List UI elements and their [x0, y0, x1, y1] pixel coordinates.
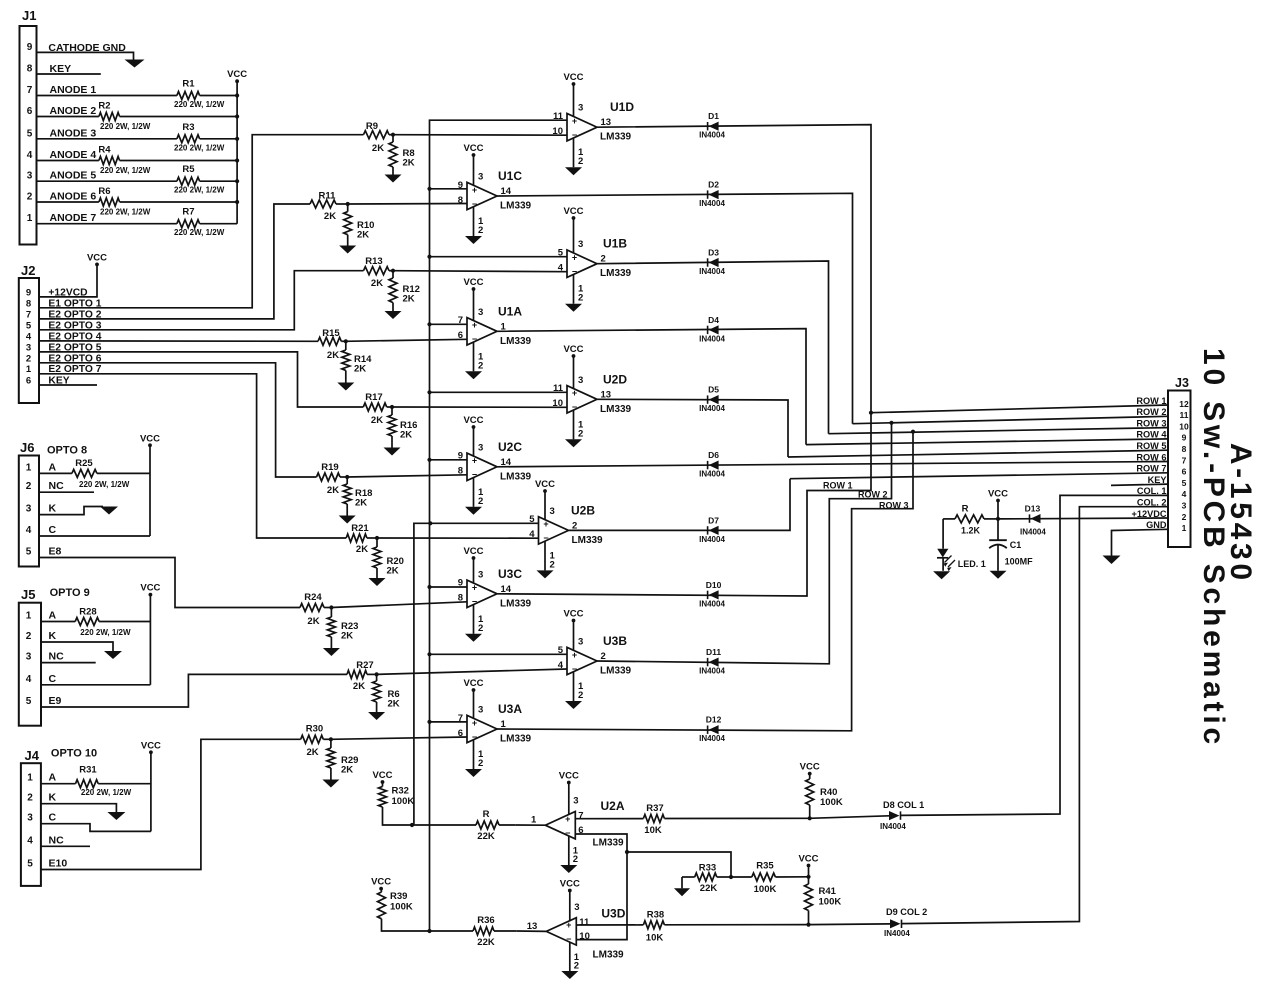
- wire J6 pin 4 C to VCC rail: [39, 535, 150, 537]
- junction node bus/U1C pin 9: [427, 187, 431, 191]
- ground pin 12 of U2A: [568, 836, 570, 865]
- svg-text:1: 1: [27, 213, 33, 224]
- svg-text:J5: J5: [21, 587, 35, 602]
- diode D10 IN4004: [707, 591, 709, 599]
- wire E1 OPTO 1 from J2 to resistor R9: [39, 135, 364, 308]
- svg-text:1: 1: [26, 462, 32, 473]
- VCC power pin 3 of U2C: [473, 427, 475, 456]
- svg-text:3: 3: [573, 796, 578, 807]
- svg-text:J1: J1: [22, 8, 36, 23]
- svg-text:9: 9: [27, 42, 33, 53]
- svg-text:4: 4: [529, 529, 535, 540]
- wire U3C output D10 up to ROW 1: [497, 413, 871, 596]
- wire ROW 7 to J3 pin 6: [790, 473, 1168, 479]
- svg-text:ROW 2: ROW 2: [1136, 407, 1166, 417]
- svg-text:2K: 2K: [354, 364, 366, 375]
- ground below R16: [384, 448, 401, 456]
- svg-text:LM339: LM339: [600, 132, 632, 143]
- resistor R11 2K: [310, 200, 336, 208]
- wire J5 pin 2 K to ground: [41, 642, 113, 651]
- VCC power pin 3 of U3D: [569, 891, 571, 921]
- svg-text:ROW 2: ROW 2: [858, 490, 888, 500]
- ground pin 12 of U3A: [473, 740, 475, 769]
- svg-text:1: 1: [1182, 523, 1187, 533]
- svg-text:IN4004: IN4004: [699, 734, 725, 743]
- svg-text:4: 4: [26, 331, 32, 342]
- wire U2D output to ROW 5 corner: [597, 399, 788, 457]
- svg-text:R: R: [483, 809, 490, 820]
- VCC power pin 3 of U1A: [473, 289, 475, 321]
- resistor R33 22K: [717, 876, 731, 878]
- svg-text:U1A: U1A: [498, 304, 522, 318]
- svg-text:2: 2: [574, 960, 579, 971]
- resistor R37 10K: [643, 815, 664, 823]
- svg-text:+: +: [566, 920, 571, 930]
- svg-text:2K: 2K: [327, 485, 339, 496]
- VCC power pin 3 of U3C: [473, 558, 475, 583]
- svg-text:R1: R1: [182, 79, 195, 90]
- svg-text:D2: D2: [708, 180, 719, 190]
- svg-text:LM339: LM339: [600, 666, 632, 677]
- wire J4 pin 1 A to resistor R31: [41, 783, 76, 785]
- svg-text:U3A: U3A: [498, 702, 522, 716]
- svg-text:ANODE 5: ANODE 5: [50, 170, 97, 182]
- svg-text:D8 COL 1: D8 COL 1: [883, 800, 924, 810]
- svg-text:LM339: LM339: [600, 268, 632, 279]
- svg-text:220 2W, 1/2W: 220 2W, 1/2W: [174, 143, 225, 152]
- svg-text:5: 5: [27, 859, 33, 870]
- wire U2B output to ROW 7 corner: [569, 479, 791, 531]
- svg-text:10: 10: [1179, 421, 1189, 431]
- svg-text:2K: 2K: [400, 430, 412, 441]
- wire J1 pin 8 KEY: [37, 73, 101, 75]
- svg-text:5: 5: [558, 645, 564, 656]
- svg-text:R19: R19: [321, 462, 338, 473]
- svg-text:NC: NC: [49, 480, 65, 492]
- connector J1: [20, 26, 37, 245]
- ground below R8: [385, 175, 402, 183]
- svg-text:8: 8: [26, 298, 31, 309]
- op-amp comparator U2C (LM339): [467, 453, 497, 480]
- svg-text:IN4004: IN4004: [699, 470, 725, 479]
- svg-text:1: 1: [531, 815, 537, 826]
- junction node R11/R10: [346, 202, 350, 206]
- resistor R8 2K pulldown: [392, 135, 394, 142]
- svg-text:LM339: LM339: [500, 734, 532, 745]
- svg-text:IN4004: IN4004: [699, 667, 725, 676]
- diode D5 IN4004: [707, 395, 709, 403]
- wire U2C output D6 row to J3 ROW 6: [497, 462, 1168, 467]
- svg-text:2K: 2K: [403, 158, 415, 169]
- svg-text:220 2W, 1/2W: 220 2W, 1/2W: [100, 122, 151, 131]
- junction node R27/R6: [375, 672, 379, 676]
- svg-text:7: 7: [27, 85, 33, 96]
- wire ROW 4 to J3 pin 9: [806, 439, 1168, 445]
- svg-text:U3B: U3B: [603, 634, 627, 648]
- svg-text:+: +: [472, 456, 477, 466]
- wire J4 pin 2 K to ground: [41, 804, 116, 812]
- wire J6 pin 2 NC stub: [39, 491, 94, 493]
- svg-text:2K: 2K: [307, 616, 319, 627]
- svg-text:3: 3: [27, 813, 33, 824]
- svg-text:3: 3: [478, 442, 483, 453]
- ground pin 12 of U1A: [473, 342, 475, 371]
- ground below R20: [369, 578, 386, 586]
- svg-text:KEY: KEY: [1148, 475, 1167, 485]
- svg-text:ROW 3: ROW 3: [1136, 418, 1166, 428]
- svg-text:IN4004: IN4004: [880, 822, 906, 831]
- svg-text:7: 7: [458, 713, 463, 724]
- svg-text:A: A: [49, 772, 57, 784]
- diode D7 IN4004: [707, 526, 709, 534]
- wire J5 pin 5 E9 to resistor R27: [41, 674, 347, 707]
- junction node R40/COL 1 line: [808, 816, 812, 820]
- LED.1 indicator: [942, 519, 944, 549]
- svg-text:+: +: [572, 116, 577, 126]
- svg-text:8: 8: [458, 593, 463, 604]
- svg-text:A: A: [49, 461, 57, 473]
- resistor R27 2K: [347, 670, 367, 678]
- svg-text:R7: R7: [182, 207, 194, 218]
- svg-text:5: 5: [1182, 478, 1187, 488]
- wire ROW 2 to J3 pin 11: [853, 416, 1169, 423]
- ground at J5 K: [104, 651, 122, 659]
- svg-text:2K: 2K: [372, 143, 384, 154]
- svg-text:K: K: [49, 792, 57, 804]
- svg-text:9: 9: [458, 451, 463, 462]
- wire J4 pin 3 C to VCC rail: [41, 824, 151, 832]
- svg-text:2K: 2K: [307, 747, 319, 758]
- svg-text:3: 3: [478, 705, 483, 716]
- wire R27 junction to U3B pin 4: [377, 669, 567, 674]
- svg-text:VCC: VCC: [140, 583, 160, 594]
- svg-text:3: 3: [26, 342, 31, 353]
- node ROW 1 junction: [869, 411, 873, 415]
- svg-text:VCC: VCC: [563, 609, 583, 620]
- svg-text:2: 2: [478, 623, 483, 634]
- ground pin 12 of U2C: [473, 478, 475, 507]
- svg-text:E9: E9: [49, 695, 62, 707]
- svg-text:9: 9: [458, 180, 463, 191]
- svg-text:ANODE 7: ANODE 7: [50, 212, 97, 224]
- svg-text:2: 2: [578, 690, 583, 701]
- svg-text:10 Sw.-PCB Schematic: 10 Sw.-PCB Schematic: [1197, 348, 1230, 748]
- wire R32 node to R 22K input of U2A: [412, 824, 476, 826]
- resistor R13 2K: [364, 267, 390, 275]
- svg-text:2: 2: [578, 156, 583, 167]
- wire J2 KEY stub: [39, 384, 97, 386]
- VCC power pin 3 of U1C: [473, 155, 475, 185]
- resistor R30 2K: [301, 735, 324, 743]
- junction node anode 1 / VCC rail: [235, 93, 239, 97]
- svg-text:2K: 2K: [341, 765, 353, 776]
- svg-text:4: 4: [27, 835, 33, 846]
- junction node bus/U2C pin 9: [427, 458, 431, 462]
- ground at J1 cathode: [125, 60, 145, 68]
- svg-text:ROW 4: ROW 4: [1136, 430, 1167, 440]
- svg-text:IN4004: IN4004: [699, 199, 725, 208]
- diode D6 IN4004: [707, 461, 709, 469]
- svg-text:U2D: U2D: [603, 372, 627, 386]
- svg-text:LM339: LM339: [572, 535, 604, 546]
- wire R30 junction to U3A pin 6: [331, 737, 467, 739]
- VCC at C1 node: [997, 501, 999, 519]
- op-amp comparator U2D (LM339): [567, 386, 597, 413]
- svg-text:R37: R37: [646, 803, 663, 814]
- svg-text:U1C: U1C: [498, 169, 522, 183]
- svg-text:3: 3: [26, 504, 32, 515]
- svg-text:2: 2: [1182, 512, 1187, 522]
- svg-text:3: 3: [27, 171, 33, 182]
- wire U3A output D12 up to ROW 3: [497, 432, 913, 731]
- svg-text:U1D: U1D: [610, 100, 634, 114]
- wire D8 to J3 COL. 1: [900, 495, 1168, 815]
- junction node bus/U1A pin 7: [427, 322, 431, 326]
- svg-text:4: 4: [26, 674, 32, 685]
- VCC pullup resistor R40 100K: [808, 772, 812, 776]
- svg-text:VCC: VCC: [463, 415, 483, 426]
- resistor R18 2K pulldown: [346, 477, 348, 484]
- svg-text:IN4004: IN4004: [699, 334, 725, 343]
- svg-text:8: 8: [458, 195, 463, 206]
- junction node U2A pin6 / R33 branch: [625, 850, 629, 854]
- wire U2B pin 5 reference with branch to U2A input line: [414, 523, 539, 825]
- svg-text:LM339: LM339: [593, 949, 625, 960]
- resistor R9 2K: [364, 131, 390, 139]
- wire U1B output to ROW 3 corner: [597, 261, 829, 434]
- svg-text:11: 11: [579, 917, 590, 928]
- svg-text:KEY: KEY: [50, 63, 72, 75]
- ground pin 12 of U2D: [573, 410, 575, 439]
- wire R39 node to R36: [430, 930, 474, 932]
- svg-text:11: 11: [553, 111, 564, 122]
- svg-text:D6: D6: [708, 450, 719, 460]
- svg-text:LM339: LM339: [500, 471, 532, 482]
- svg-text:R30: R30: [306, 724, 323, 735]
- svg-text:VCC: VCC: [227, 69, 247, 80]
- svg-text:7: 7: [458, 315, 463, 326]
- svg-text:3: 3: [478, 569, 483, 580]
- svg-text:R11: R11: [319, 191, 337, 202]
- VCC at J6: [149, 445, 151, 536]
- wire U3D pin 11 through R38 to D9: [576, 924, 643, 926]
- op-amp comparator U3A (LM339): [467, 715, 497, 742]
- wire J3 pin 1 GND to ground: [1112, 529, 1169, 555]
- wire R17 junction to U2D pin 10: [392, 406, 567, 408]
- svg-text:8: 8: [1182, 444, 1187, 454]
- svg-text:OPTO 9: OPTO 9: [50, 587, 90, 599]
- node C1/VCC junction: [996, 517, 1000, 521]
- resistor R15 2K: [318, 337, 341, 345]
- svg-text:+: +: [472, 185, 477, 195]
- junction node R13/R12: [391, 269, 395, 273]
- svg-text:220 2W, 1/2W: 220 2W, 1/2W: [174, 100, 225, 109]
- svg-text:13: 13: [527, 921, 538, 932]
- svg-text:U2A: U2A: [601, 799, 625, 813]
- svg-text:100K: 100K: [819, 897, 842, 908]
- svg-text:E8: E8: [49, 546, 62, 558]
- VCC pullup resistor R32 100K: [381, 780, 385, 784]
- svg-text:LM339: LM339: [500, 201, 532, 212]
- svg-text:CATHODE GND: CATHODE GND: [48, 42, 126, 54]
- wire ROW 5 to J3 pin 8: [788, 450, 1168, 457]
- resistor R16 2K pulldown: [391, 407, 393, 415]
- svg-text:3: 3: [578, 239, 583, 250]
- svg-text:C: C: [49, 812, 57, 824]
- resistor R24 2K: [300, 604, 324, 612]
- diode D13 IN4004: [1029, 514, 1031, 522]
- op-amp comparator U1D (LM339): [567, 114, 597, 141]
- svg-text:A: A: [49, 610, 57, 622]
- resistor R6 220 ohm: [99, 198, 120, 206]
- svg-text:IN4004: IN4004: [1020, 528, 1046, 537]
- svg-text:R13: R13: [365, 256, 382, 267]
- svg-text:2K: 2K: [324, 211, 336, 222]
- ground below R23: [323, 648, 340, 656]
- VCC power pin 3 of U3A: [473, 690, 475, 718]
- diode D3 IN4004: [707, 258, 709, 266]
- svg-text:3: 3: [1182, 501, 1187, 511]
- junction node R35/R41/VCC: [806, 875, 810, 879]
- svg-text:7: 7: [1182, 455, 1187, 465]
- op-amp comparator U1A (LM339): [467, 318, 497, 345]
- svg-text:11: 11: [553, 383, 564, 394]
- wire KEY to J3 pin 5: [1111, 484, 1168, 485]
- svg-text:9: 9: [458, 578, 463, 589]
- ground below R10: [339, 246, 356, 254]
- wire bus tap to U3A pin 7: [430, 721, 468, 723]
- junction node anode 3 / VCC rail: [235, 137, 239, 141]
- svg-text:6: 6: [26, 376, 31, 387]
- wire bus tap to U1B pin 5: [430, 256, 568, 258]
- ground at J6 K: [100, 507, 118, 515]
- svg-text:R38: R38: [647, 910, 664, 921]
- wire R24 junction to U3C pin 8: [331, 602, 467, 608]
- svg-text:2: 2: [27, 793, 33, 804]
- ground pin 12 of U1B: [573, 274, 575, 303]
- resistor R12 2K pulldown: [392, 271, 394, 278]
- wire E2 OPTO 5 from J2 to resistor R17: [39, 352, 363, 407]
- svg-text:2: 2: [550, 559, 555, 570]
- svg-text:100MF: 100MF: [1005, 557, 1034, 567]
- resistor R25 220 ohm: [72, 469, 97, 477]
- resistor R14 2K pulldown: [345, 341, 347, 350]
- svg-text:2: 2: [478, 225, 483, 236]
- svg-text:2K: 2K: [387, 566, 399, 577]
- svg-text:R24: R24: [304, 592, 322, 603]
- resistor R7 220 ohm: [177, 220, 200, 228]
- VCC at J4: [150, 752, 152, 831]
- svg-text:5: 5: [26, 547, 32, 558]
- wire R 22K to U2A output pin 1: [515, 824, 545, 826]
- junction node R39 line / reference bus: [427, 929, 431, 933]
- svg-text:+: +: [572, 650, 577, 660]
- svg-text:ANODE 1: ANODE 1: [50, 84, 97, 96]
- connector J4: [21, 763, 41, 886]
- svg-text:VCC: VCC: [372, 770, 392, 781]
- svg-text:ROW 7: ROW 7: [1136, 464, 1166, 474]
- svg-text:2: 2: [578, 293, 583, 304]
- diode D1 IN4004: [707, 122, 709, 130]
- svg-text:VCC: VCC: [463, 546, 483, 557]
- svg-text:E10: E10: [49, 858, 68, 870]
- resistor R 22K: [476, 821, 499, 829]
- svg-text:R28: R28: [79, 607, 96, 618]
- junction node bus/U3B pin 5: [427, 652, 431, 656]
- svg-text:+: +: [572, 253, 577, 263]
- resistor R19 2K: [317, 473, 341, 481]
- wire R11 junction to U1C pin 8: [348, 203, 467, 206]
- svg-text:5: 5: [26, 696, 32, 707]
- junction node anode 5 / VCC rail: [235, 179, 239, 183]
- svg-text:220 2W, 1/2W: 220 2W, 1/2W: [100, 208, 151, 217]
- svg-text:22K: 22K: [477, 937, 495, 948]
- svg-text:VCC: VCC: [800, 762, 820, 773]
- junction node anode 6 / VCC rail: [235, 200, 239, 204]
- svg-text:3: 3: [478, 172, 483, 183]
- svg-text:R21: R21: [351, 523, 369, 534]
- svg-text:2: 2: [573, 854, 578, 865]
- ground pin 12 of U1D: [573, 138, 575, 167]
- node ROW 3 junction: [911, 430, 915, 434]
- svg-text:U3D: U3D: [601, 907, 625, 921]
- junction node bus/U3A pin 7: [427, 720, 431, 724]
- VCC power pin 3 of U2A: [568, 783, 570, 815]
- connector J2: [19, 278, 39, 403]
- svg-text:100K: 100K: [820, 797, 843, 808]
- junction node bus/U1B pin 5: [427, 255, 431, 259]
- resistor R35 100K: [731, 876, 752, 878]
- junction node R24/R23: [329, 605, 333, 609]
- svg-text:+: +: [572, 388, 577, 398]
- op-amp comparator U1B (LM339): [567, 250, 597, 277]
- wire J4 pin 4 NC stub: [41, 845, 90, 847]
- wire E2 OPTO 2 from J2 to resistor R11: [39, 204, 310, 319]
- svg-text:3: 3: [574, 902, 579, 913]
- ground at J3 GND: [1103, 556, 1121, 565]
- svg-text:6: 6: [1182, 467, 1187, 477]
- ground at J4 K: [107, 812, 125, 820]
- svg-text:5: 5: [26, 320, 32, 331]
- svg-text:220 2W, 1/2W: 220 2W, 1/2W: [81, 788, 132, 797]
- svg-text:1: 1: [26, 611, 32, 622]
- svg-text:D9 COL 2: D9 COL 2: [886, 907, 927, 917]
- svg-text:2: 2: [26, 353, 31, 364]
- svg-text:NC: NC: [49, 834, 65, 846]
- junction node R21/R20: [375, 536, 379, 540]
- wire reference bus vertical to U1D pin 11: [430, 120, 568, 931]
- svg-text:ROW 1: ROW 1: [1136, 396, 1166, 406]
- svg-text:2K: 2K: [341, 631, 353, 642]
- svg-text:IN4004: IN4004: [699, 131, 725, 140]
- svg-text:VCC: VCC: [559, 771, 579, 782]
- wire E2 OPTO 4 from J2 to resistor R15: [39, 340, 318, 342]
- svg-text:IN4004: IN4004: [699, 267, 725, 276]
- svg-text:K: K: [49, 503, 57, 515]
- svg-text:2: 2: [478, 758, 483, 769]
- svg-text:VCC: VCC: [140, 433, 160, 444]
- svg-text:220 2W, 1/2W: 220 2W, 1/2W: [174, 186, 225, 195]
- ground below R14: [337, 383, 354, 391]
- op-amp comparator U2B (LM339): [539, 517, 569, 544]
- VCC pullup resistor R41 100K: [807, 864, 811, 868]
- svg-text:J2: J2: [21, 263, 35, 278]
- svg-text:3: 3: [578, 103, 583, 114]
- svg-text:OPTO 10: OPTO 10: [51, 748, 97, 760]
- svg-text:R36: R36: [477, 915, 494, 926]
- svg-text:C1: C1: [1010, 540, 1022, 550]
- svg-text:R5: R5: [182, 164, 195, 175]
